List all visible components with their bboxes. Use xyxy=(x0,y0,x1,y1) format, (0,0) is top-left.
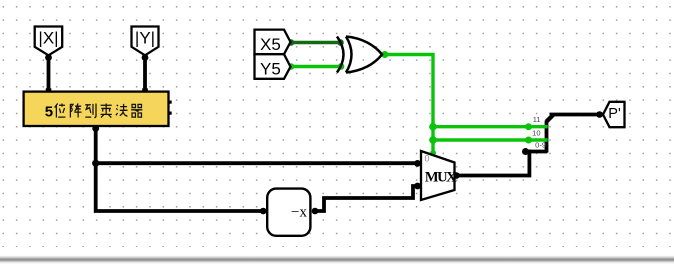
svg-text:0-9: 0-9 xyxy=(535,141,546,150)
svg-text:MUX: MUX xyxy=(425,170,457,186)
svg-text:0: 0 xyxy=(425,154,430,164)
svg-text:10: 10 xyxy=(532,129,540,138)
svg-text:P': P' xyxy=(608,106,621,122)
svg-text:5: 5 xyxy=(45,104,53,121)
svg-text:11: 11 xyxy=(533,115,541,124)
svg-text:|Y|: |Y| xyxy=(135,29,155,48)
svg-text:X5: X5 xyxy=(260,35,281,54)
svg-text:|X|: |X| xyxy=(38,29,58,48)
svg-text:−x: −x xyxy=(291,205,307,221)
svg-text:Y5: Y5 xyxy=(260,59,281,78)
